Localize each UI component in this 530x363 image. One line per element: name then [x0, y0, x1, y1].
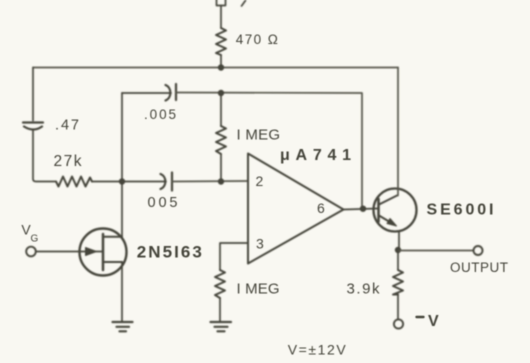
svg-text:V=±12V: V=±12V — [288, 342, 347, 358]
svg-text:OUTPUT: OUTPUT — [450, 260, 508, 275]
svg-text:SE600I: SE600I — [427, 202, 494, 219]
svg-text:005: 005 — [148, 195, 178, 211]
svg-text:G: G — [31, 234, 39, 245]
svg-text:I MEG: I MEG — [237, 281, 280, 298]
svg-text:470 Ω: 470 Ω — [236, 32, 278, 47]
svg-text:I MEG: I MEG — [237, 127, 281, 144]
svg-text:V: V — [428, 313, 439, 330]
svg-text:3: 3 — [256, 236, 264, 252]
svg-text:2: 2 — [256, 173, 264, 189]
svg-text:6: 6 — [317, 200, 325, 216]
svg-text:.47: .47 — [55, 118, 79, 134]
svg-text:27k: 27k — [54, 153, 82, 170]
svg-text:.005: .005 — [144, 107, 176, 122]
svg-text:3.9k: 3.9k — [347, 281, 381, 298]
